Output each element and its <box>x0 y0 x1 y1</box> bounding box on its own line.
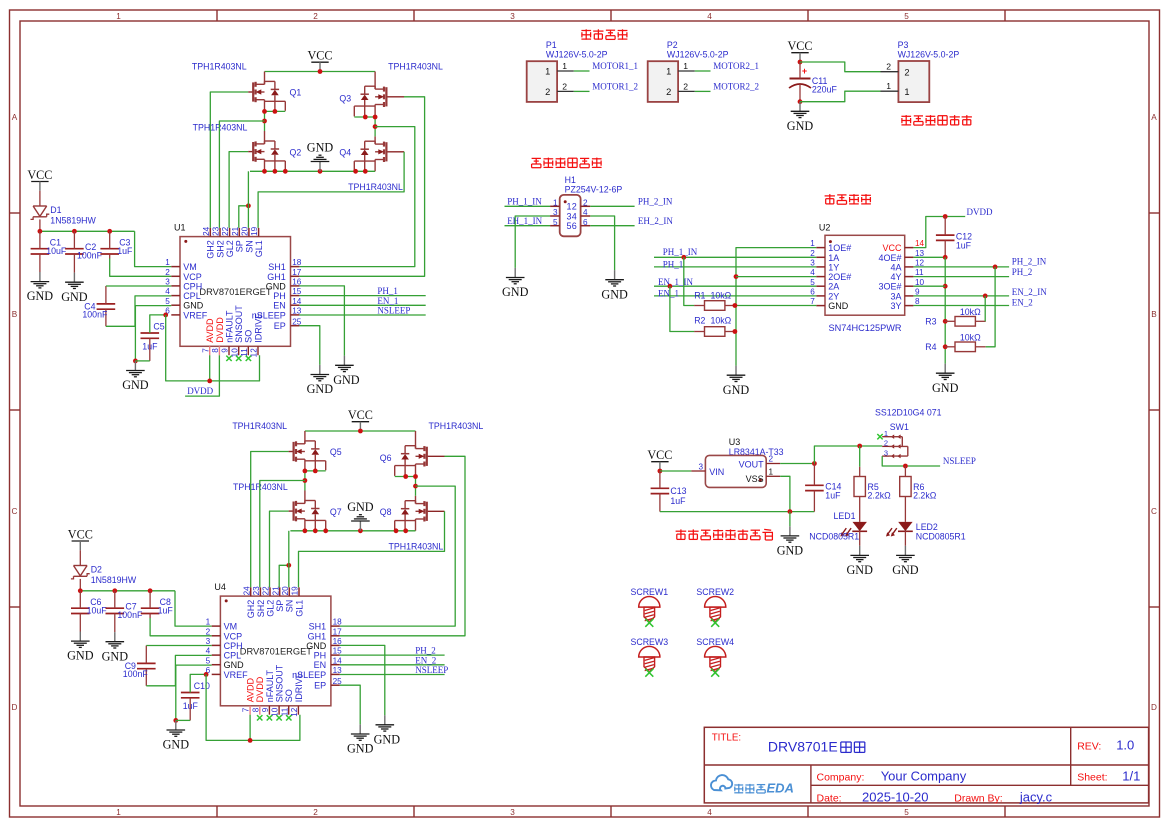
U1 pin 7 AVDD <box>209 346 211 355</box>
svg-text:PH_1_IN: PH_1_IN <box>507 197 542 207</box>
wire CPL <box>106 296 171 326</box>
ground (EP) <box>359 724 361 734</box>
svg-text:5: 5 <box>165 297 170 306</box>
svg-text:10kΩ: 10kΩ <box>960 307 981 317</box>
section title 使能信号及指示灯 (enable & indicators) <box>676 530 687 532</box>
transistor Q3 TPH1R403NL <box>386 96 404 98</box>
svg-text:SCREW1: SCREW1 <box>630 587 668 597</box>
transistor Q5 TPH1R403NL <box>289 451 294 453</box>
ground (H1 left) <box>514 268 516 278</box>
svg-text:10: 10 <box>915 278 925 287</box>
svg-text:3: 3 <box>553 208 558 217</box>
U2 pin 3 1Y <box>816 266 825 268</box>
svg-text:D: D <box>1151 703 1157 712</box>
svg-text:SNSOUT: SNSOUT <box>275 664 285 702</box>
U2 pin 7 GND <box>816 305 825 307</box>
svg-text:EH_2_IN: EH_2_IN <box>638 216 673 226</box>
U2 pin 12 4A <box>905 266 914 268</box>
wire AVDD rail <box>206 674 300 740</box>
svg-text:IDRIVE: IDRIVE <box>253 313 263 343</box>
svg-text:AVDD: AVDD <box>246 677 256 702</box>
svg-text:GL1: GL1 <box>294 600 304 617</box>
svg-text:6: 6 <box>572 221 577 231</box>
svg-text:1: 1 <box>769 468 774 477</box>
svg-text:Q6: Q6 <box>380 453 392 463</box>
svg-text:2.2kΩ: 2.2kΩ <box>868 491 892 501</box>
U4 pin 13 nSLEEP <box>331 673 340 675</box>
svg-text:3: 3 <box>698 462 703 471</box>
ground (LED1) <box>859 546 861 556</box>
transistor Q2 TPH1R403NL <box>248 151 253 153</box>
U4 pin 14 EN <box>331 664 340 666</box>
U1 pin 12 IDRIVE <box>257 346 259 355</box>
svg-text:CPH: CPH <box>224 641 243 651</box>
wire 1OE# <box>736 248 816 366</box>
svg-text:GL2: GL2 <box>225 240 235 257</box>
wire EH_1_IN <box>505 225 551 227</box>
wire CPL <box>146 655 211 685</box>
ground (C 100nF) <box>114 632 116 642</box>
svg-text:EN_2: EN_2 <box>415 655 436 665</box>
svg-text:20: 20 <box>281 586 290 596</box>
svg-text:SP: SP <box>275 600 285 612</box>
svg-text:13: 13 <box>333 666 343 675</box>
svg-text:Your Company: Your Company <box>881 768 967 783</box>
wire source rail <box>250 170 375 172</box>
svg-text:SH2: SH2 <box>256 600 266 618</box>
transistor Q8 TPH1R403NL <box>427 510 445 512</box>
svg-text:10kΩ: 10kΩ <box>711 316 732 326</box>
wire VREF to C5 <box>150 315 166 333</box>
svg-text:TPH1R403NL: TPH1R403NL <box>429 421 484 431</box>
wire SH1 to pin18 <box>340 486 455 626</box>
svg-text:SN: SN <box>285 600 295 613</box>
svg-text:VOUT: VOUT <box>739 459 765 469</box>
svg-text:2: 2 <box>562 82 567 92</box>
U1 pin 16 GND <box>291 285 300 287</box>
svg-text:22: 22 <box>262 586 271 596</box>
diode D1 1N5819HW <box>39 191 41 206</box>
capacitor C1 10uF <box>31 248 50 250</box>
ground (C 100nF) <box>73 273 75 283</box>
U1 pin 11 SO <box>247 346 249 355</box>
ground (H1 right) <box>614 270 616 280</box>
junction dots on VM rail <box>78 588 83 593</box>
U2 pin 10 3OE# <box>905 285 914 287</box>
U1 pin 20 SN <box>248 228 250 237</box>
svg-text:2Y: 2Y <box>828 291 839 301</box>
svg-text:R2: R2 <box>694 316 705 326</box>
svg-text:C5: C5 <box>153 322 164 332</box>
U4 pin 6 VREF <box>212 673 221 675</box>
wire nSLEEP <box>299 314 425 316</box>
svg-text:2A: 2A <box>828 282 839 292</box>
svg-text:MOTOR2_2: MOTOR2_2 <box>713 81 759 91</box>
svg-text:SCREW2: SCREW2 <box>696 587 734 597</box>
svg-text:EH_1_IN: EH_1_IN <box>507 216 542 226</box>
svg-text:LED1: LED1 <box>834 511 856 521</box>
transistor Q4 TPH1R403NL <box>386 151 404 153</box>
svg-text:C13: C13 <box>670 486 686 496</box>
svg-text:16: 16 <box>333 637 343 646</box>
U4 pin 5 GND <box>212 664 221 666</box>
svg-text:GND: GND <box>347 500 374 514</box>
svg-text:2.2kΩ: 2.2kΩ <box>913 491 937 501</box>
svg-text:VREF: VREF <box>183 310 208 320</box>
svg-text:4Y: 4Y <box>890 272 901 282</box>
svg-text:U3: U3 <box>729 437 741 447</box>
ground (C 10uF) <box>39 272 41 282</box>
svg-text:DRV8701ERGET: DRV8701ERGET <box>240 646 312 656</box>
svg-text:100nF: 100nF <box>123 669 149 679</box>
svg-text:VCC: VCC <box>787 39 812 53</box>
wire GL2 gate <box>229 152 248 228</box>
wire EN <box>340 664 445 666</box>
ground (pin16) <box>384 715 386 725</box>
svg-text:GND: GND <box>502 285 529 299</box>
U1 pin 21 SP <box>238 228 240 237</box>
svg-text:100nF: 100nF <box>82 309 108 319</box>
svg-text:4OE#: 4OE# <box>878 253 901 263</box>
U4 pin 25 EP <box>331 684 340 686</box>
JLCEDA logo <box>711 775 732 790</box>
no-connect pins 8,9,10,11 <box>257 715 262 720</box>
wire SH2 midpoint <box>305 470 326 472</box>
U1 pin 6 VREF <box>171 314 180 316</box>
ground (pin16) <box>343 356 345 366</box>
svg-text:TPH1R403NL: TPH1R403NL <box>233 482 288 492</box>
U3 pin 2 VOUT <box>766 463 780 465</box>
U1 pin 19 GL1 <box>258 228 260 237</box>
svg-text:4: 4 <box>572 211 577 221</box>
svg-text:GND: GND <box>306 641 327 651</box>
wire SH1 midpoint <box>354 116 375 118</box>
svg-text:11: 11 <box>240 348 249 357</box>
wire PH_2_IN (H1) <box>590 205 634 207</box>
svg-text:EP: EP <box>314 681 326 691</box>
H1 pins 5 6 <box>550 225 560 227</box>
wire PH_1_IN <box>505 205 551 207</box>
svg-text:AVDD: AVDD <box>205 318 215 343</box>
svg-text:2025-10-20: 2025-10-20 <box>862 789 929 804</box>
svg-text:SN: SN <box>244 240 254 253</box>
wire EN <box>299 304 425 306</box>
wire GND pin5 <box>176 665 212 720</box>
svg-text:EN_1_IN: EN_1_IN <box>658 277 693 287</box>
resistor R1 10k <box>684 257 695 305</box>
U1 pin 3 CPH <box>171 285 180 287</box>
svg-text:3OE#: 3OE# <box>878 282 901 292</box>
section title 缓冲电路 (buffer circuit) <box>825 195 835 197</box>
wire 2OE# junction <box>734 274 739 279</box>
svg-text:GND: GND <box>333 373 360 387</box>
wire 3A (EN_2_IN) <box>913 295 1009 297</box>
wire VCC to bridge top <box>305 430 416 432</box>
U2 pin 9 3A <box>905 295 914 297</box>
U1 pin 13 nSLEEP <box>291 314 300 316</box>
svg-text:15: 15 <box>333 647 343 656</box>
svg-text:GND: GND <box>846 563 873 577</box>
svg-text:2: 2 <box>206 627 211 636</box>
wire net MOTOR1_1 <box>574 70 590 72</box>
svg-text:3: 3 <box>567 211 572 221</box>
svg-text:EN: EN <box>314 660 327 670</box>
svg-text:VCC: VCC <box>68 527 93 541</box>
U1 pin 10 SNSOUT <box>238 346 240 355</box>
svg-text:VCC: VCC <box>348 408 373 422</box>
svg-text:VCC: VCC <box>882 243 902 253</box>
ground (LED2) <box>904 546 906 556</box>
svg-text:U1: U1 <box>174 223 186 233</box>
svg-text:4: 4 <box>165 287 170 296</box>
U4 pin 8 DVDD <box>259 706 261 715</box>
U4 pin 10 SNSOUT <box>278 706 280 715</box>
svg-text:EN_1: EN_1 <box>377 296 398 306</box>
svg-text:GND: GND <box>183 301 204 311</box>
svg-text:1: 1 <box>206 618 211 627</box>
svg-text:2OE#: 2OE# <box>828 272 851 282</box>
svg-text:GND: GND <box>932 381 959 395</box>
svg-text:15: 15 <box>292 287 302 296</box>
svg-text:NSLEEP: NSLEEP <box>377 306 410 316</box>
resistor R6 2.2k <box>904 466 906 477</box>
wire GND pin5 <box>135 306 171 361</box>
capacitor C8 1uF <box>141 607 160 609</box>
U4 pin 11 SO <box>288 706 290 715</box>
svg-text:5: 5 <box>904 12 909 21</box>
svg-text:3: 3 <box>510 808 515 817</box>
svg-text:4: 4 <box>707 12 712 21</box>
U3 pin 1 VSS <box>766 475 780 477</box>
svg-text:Q1: Q1 <box>290 87 302 97</box>
H1 pins 3 4 <box>550 215 560 217</box>
svg-text:Q4: Q4 <box>339 147 351 157</box>
capacitor C10 1uF <box>181 692 200 694</box>
U4 pin 12 IDRIVE <box>297 706 299 715</box>
U1 pin 14 EN <box>291 304 300 306</box>
wire VSS/GND rail <box>660 511 815 513</box>
svg-text:GH1: GH1 <box>267 272 286 282</box>
ground (EP) <box>319 365 321 375</box>
svg-text:EN_2: EN_2 <box>1012 298 1033 308</box>
U2 pin 1 1OE# <box>816 247 825 249</box>
svg-text:20: 20 <box>241 226 250 236</box>
svg-text:1uF: 1uF <box>956 240 972 250</box>
capacitor C9 100nF <box>137 662 156 664</box>
svg-text:SO: SO <box>244 330 254 343</box>
svg-text:21: 21 <box>271 586 280 596</box>
wire SH1 to pin18 <box>299 127 414 267</box>
wire 2A (EN_1_IN) <box>654 285 816 287</box>
svg-text:1Y: 1Y <box>828 262 839 272</box>
svg-text:10kΩ: 10kΩ <box>960 332 981 342</box>
svg-text:14: 14 <box>333 656 343 665</box>
U4 pin 4 CPL <box>212 654 221 656</box>
wire GH2 gate <box>210 92 248 228</box>
capacitor C2 100nF <box>65 248 84 250</box>
svg-text:2: 2 <box>583 198 588 207</box>
svg-text:3: 3 <box>206 637 211 646</box>
svg-text:9: 9 <box>221 348 230 353</box>
H1 pins 1 2 <box>550 205 560 207</box>
U1 pin 25 EP <box>291 325 300 327</box>
wire PH <box>299 295 425 297</box>
svg-text:WJ126V-5.0-2P: WJ126V-5.0-2P <box>546 50 608 60</box>
svg-text:WJ126V-5.0-2P: WJ126V-5.0-2P <box>667 50 729 60</box>
label 电源输入端子 (power input terminal) <box>901 115 911 117</box>
svg-text:11: 11 <box>915 268 924 277</box>
svg-text:D1: D1 <box>50 205 61 215</box>
wire VREF to C5 <box>190 674 206 692</box>
svg-text:2: 2 <box>572 202 577 212</box>
wire 2Y (EN_1) <box>654 295 816 297</box>
svg-text:100nF: 100nF <box>77 251 103 261</box>
P3 pin 2 <box>881 71 899 73</box>
svg-text:TPH1R403NL: TPH1R403NL <box>232 421 287 431</box>
svg-text:GND: GND <box>601 287 628 301</box>
wire 4OE# rail <box>913 256 945 258</box>
svg-text:EDA: EDA <box>767 781 794 796</box>
svg-text:VCP: VCP <box>183 272 202 282</box>
U4 pin 15 PH <box>331 654 340 656</box>
svg-text:R3: R3 <box>925 317 936 327</box>
svg-text:SO: SO <box>284 689 294 702</box>
svg-text:MOTOR2_1: MOTOR2_1 <box>713 61 759 71</box>
svg-text:MOTOR1_2: MOTOR1_2 <box>592 81 638 91</box>
svg-text:DRV8701E: DRV8701E <box>768 738 838 754</box>
svg-text:+: + <box>802 66 807 76</box>
svg-text:1uF: 1uF <box>825 490 841 500</box>
svg-text:4: 4 <box>810 268 815 277</box>
svg-text:GH2: GH2 <box>206 240 216 259</box>
svg-text:GND: GND <box>892 563 919 577</box>
svg-text:SW1: SW1 <box>890 422 909 432</box>
svg-text:3: 3 <box>165 278 170 287</box>
U4 pin 20 SN <box>288 587 290 596</box>
wire CPH <box>146 645 211 647</box>
svg-text:A: A <box>12 113 18 122</box>
wire VOUT <box>780 463 814 465</box>
svg-text:EP: EP <box>274 321 286 331</box>
svg-text:4A: 4A <box>890 262 901 272</box>
svg-text:4: 4 <box>583 208 588 217</box>
svg-text:GND: GND <box>787 119 814 133</box>
svg-text:EN_2_IN: EN_2_IN <box>1012 287 1047 297</box>
svg-text:PH: PH <box>273 291 286 301</box>
svg-text:18: 18 <box>292 258 302 267</box>
svg-text:Q8: Q8 <box>380 507 392 517</box>
svg-text:SS12D10G4 071: SS12D10G4 071 <box>875 408 942 418</box>
svg-text:1: 1 <box>116 808 121 817</box>
diode D2 1N5819HW <box>79 550 81 565</box>
svg-text:1: 1 <box>553 198 558 207</box>
capacitor C3 1uF <box>100 248 119 250</box>
svg-text:U4: U4 <box>214 582 226 592</box>
ground (U2 pulldowns) <box>735 366 737 376</box>
wire net MOTOR2_2 <box>695 90 711 92</box>
svg-text:16: 16 <box>292 278 302 287</box>
capacitor C7 100nF <box>106 607 125 609</box>
svg-text:GND: GND <box>67 649 94 663</box>
svg-text:MOTOR1_1: MOTOR1_1 <box>592 61 638 71</box>
U2 pin 14 VCC <box>905 247 914 249</box>
wire SH2 <box>219 121 264 228</box>
svg-text:10uF: 10uF <box>46 246 67 256</box>
svg-text:10uF: 10uF <box>87 606 108 616</box>
U1 pin 1 VM <box>171 266 180 268</box>
svg-text:23: 23 <box>212 226 221 236</box>
svg-text:TPH1R403NL: TPH1R403NL <box>193 122 248 132</box>
svg-text:VCC: VCC <box>27 168 52 182</box>
wire SW1 pin3 to NSLEEP <box>882 456 940 466</box>
svg-text:GL2: GL2 <box>265 600 275 617</box>
svg-text:NCD0805R1: NCD0805R1 <box>809 532 859 542</box>
svg-text:EN_1: EN_1 <box>658 288 679 298</box>
capacitor C14 1uF <box>805 484 824 486</box>
svg-text:2: 2 <box>886 62 891 72</box>
wire EP GND <box>299 326 319 365</box>
svg-text:1: 1 <box>562 61 567 71</box>
svg-text:2: 2 <box>313 808 318 817</box>
svg-text:1uF: 1uF <box>117 246 133 256</box>
svg-text:SH2: SH2 <box>215 240 225 258</box>
svg-text:3: 3 <box>810 259 815 268</box>
wire 3Y (EN_2) <box>913 305 1009 307</box>
svg-text:1OE#: 1OE# <box>828 243 851 253</box>
wire SH1 midpoint <box>395 476 416 478</box>
svg-text:1.0: 1.0 <box>1116 738 1134 753</box>
U4 pin 18 SH1 <box>331 625 340 627</box>
U4 pin 3 CPH <box>212 644 221 646</box>
svg-text:NCD0805R1: NCD0805R1 <box>916 531 966 541</box>
svg-text:jacy.c: jacy.c <box>1019 789 1053 804</box>
svg-text:GND: GND <box>266 281 287 291</box>
wire GL2 gate <box>270 511 289 587</box>
svg-text:PH_2_IN: PH_2_IN <box>1012 257 1047 267</box>
wire VM rail <box>40 230 135 232</box>
svg-text:R4: R4 <box>925 342 936 352</box>
svg-text:Q7: Q7 <box>330 507 342 517</box>
svg-text:GND: GND <box>828 301 849 311</box>
wire 4A (PH_2_IN) <box>913 266 1009 268</box>
svg-text:13: 13 <box>915 249 925 258</box>
U4 pin 7 AVDD <box>249 706 251 715</box>
wire net MOTOR1_2 <box>574 90 590 92</box>
wire VCC to bridge top <box>265 71 376 73</box>
U2 pin 5 2A <box>816 285 825 287</box>
U4 pin 1 VM <box>212 625 221 627</box>
svg-text:TPH1R403NL: TPH1R403NL <box>388 62 443 72</box>
ground (U2 right) <box>944 364 946 374</box>
svg-text:1N5819HW: 1N5819HW <box>91 575 137 585</box>
svg-text:2: 2 <box>313 12 318 21</box>
svg-text:GND: GND <box>307 140 334 154</box>
svg-text:220uF: 220uF <box>812 85 838 95</box>
U4 pin 23 SH2 <box>259 587 261 596</box>
svg-text:100nF: 100nF <box>117 610 143 620</box>
U1 pin 15 PH <box>291 295 300 297</box>
wire 4Y (PH_2) <box>913 276 1009 278</box>
svg-text:NSLEEP: NSLEEP <box>943 456 976 466</box>
wire 1A (PH_1_IN) <box>654 256 816 258</box>
svg-text:Company:: Company: <box>817 771 865 783</box>
svg-text:5: 5 <box>904 808 909 817</box>
svg-text:17: 17 <box>333 627 343 636</box>
ground (bridge mid) <box>319 162 321 172</box>
svg-text:GND: GND <box>307 382 334 396</box>
svg-text:Q5: Q5 <box>330 447 342 457</box>
svg-text:TPH1R403NL: TPH1R403NL <box>192 62 247 72</box>
